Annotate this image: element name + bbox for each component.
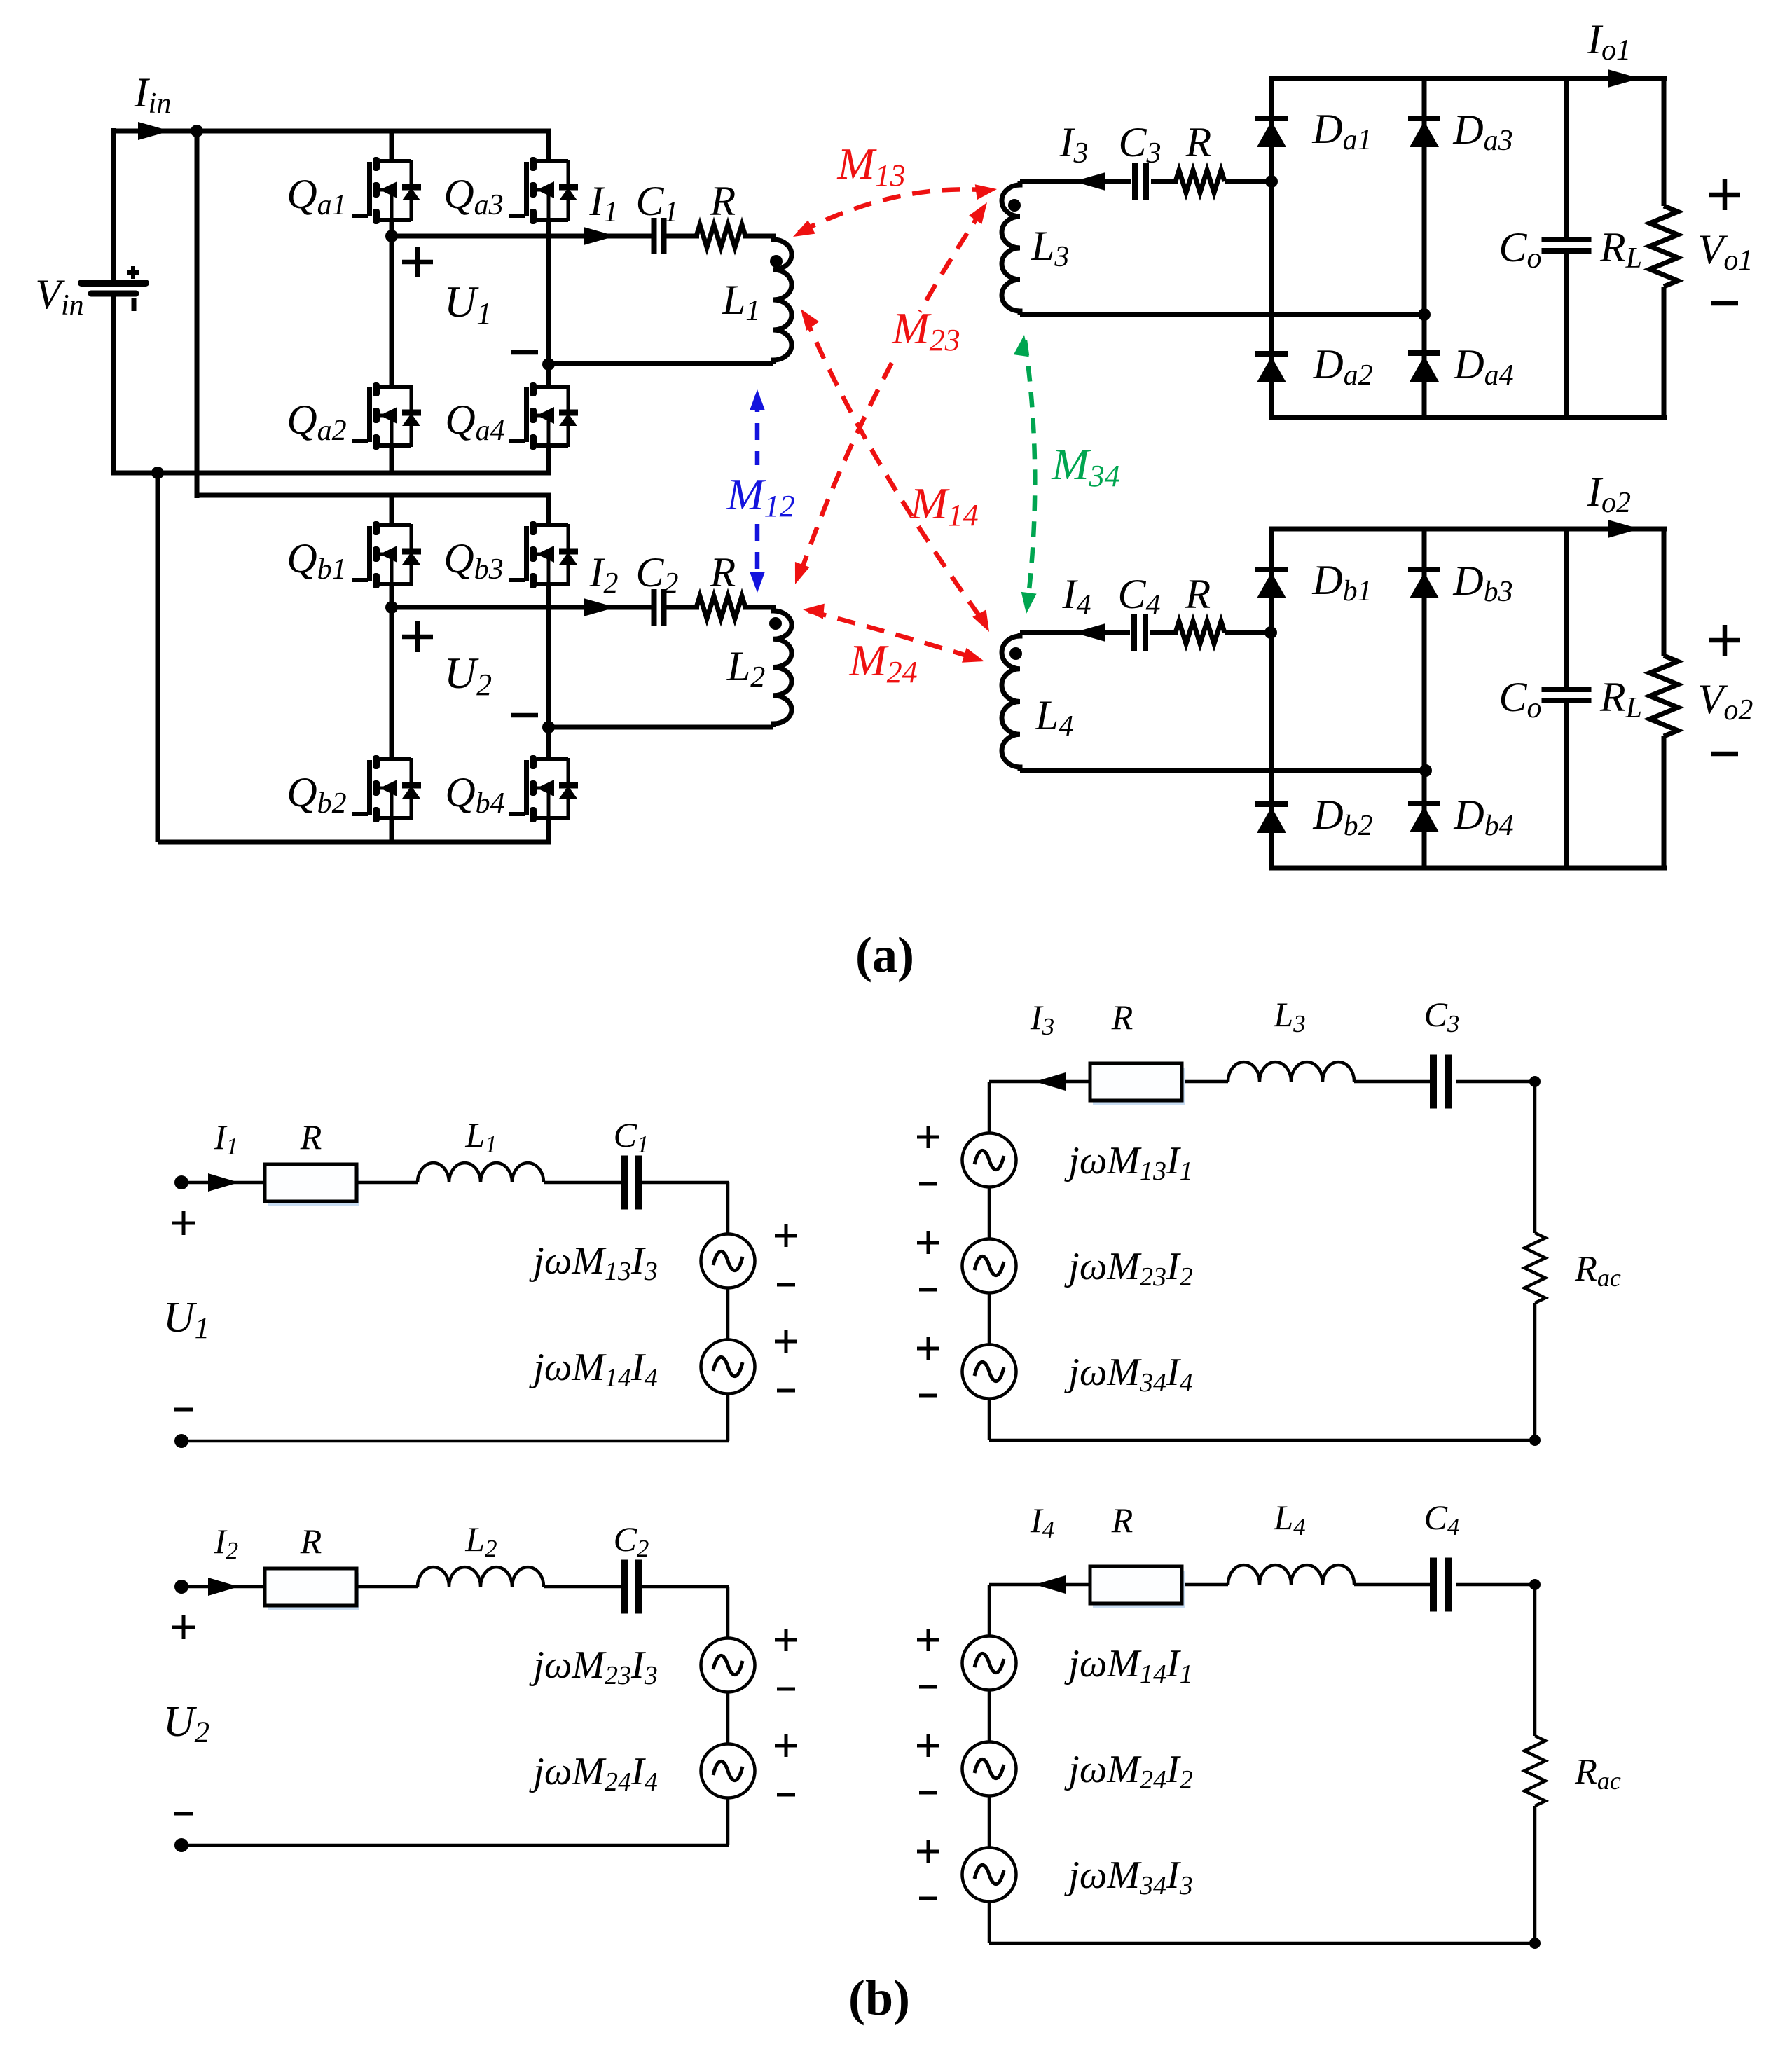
node U2 positive output xyxy=(385,601,398,614)
label U1 plus xyxy=(402,247,433,277)
label Vo2 plus xyxy=(1709,625,1740,656)
wire I2 branch xyxy=(392,605,656,610)
label I4 loop src2 minus xyxy=(919,1791,937,1795)
wire L3 return xyxy=(1020,312,1424,317)
label U2 loop source2 minus xyxy=(777,1793,795,1797)
arrow I3 current direction xyxy=(1073,172,1105,191)
wire bus to bridge B bottom rail xyxy=(156,473,160,842)
arrow Io2 current direction xyxy=(1608,520,1640,538)
diode Db4 xyxy=(1408,803,1440,832)
wire I3 loop right edge xyxy=(1533,1082,1537,1233)
wire I3 loop left edge xyxy=(988,1082,991,1133)
capacitor Co (output 1) xyxy=(1542,240,1592,251)
wire bus to bridge B top rail xyxy=(195,131,200,498)
wire I3 loop top xyxy=(989,1080,1090,1084)
inductor L1 xyxy=(770,236,792,364)
label U1 loop source2 plus xyxy=(775,1330,797,1353)
label U2 minus xyxy=(511,713,538,718)
node U1 loop return terminal xyxy=(174,1434,188,1448)
transistor Qb3 xyxy=(509,495,578,727)
svg-text:jωM13I1: jωM13I1 xyxy=(1064,1139,1192,1186)
source controlled source M34I3 xyxy=(963,1848,1016,1902)
diode Da4 xyxy=(1408,353,1440,382)
wire L4 return xyxy=(1020,768,1426,773)
node U2 negative output xyxy=(542,721,555,733)
wire rectifier B bottom rail xyxy=(1269,866,1667,871)
wire U1 loop L to C xyxy=(544,1181,621,1185)
wire Iin top rail xyxy=(197,129,551,134)
wire diode leg Db1-Db2 xyxy=(1269,529,1274,868)
resistor R (tank 1) xyxy=(696,225,745,247)
node rectifier B input right xyxy=(1419,764,1432,777)
diode Da1 xyxy=(1255,118,1288,147)
label U2 loop source1 plus xyxy=(775,1629,797,1651)
capacitor C1 (U1 loop) xyxy=(624,1156,639,1210)
battery Vin xyxy=(81,266,146,311)
wire I4 branch xyxy=(1020,630,1130,635)
capacitor C3 xyxy=(1135,163,1146,200)
capacitor C4 (I4 loop) xyxy=(1433,1558,1448,1612)
inductor L2 xyxy=(769,607,792,727)
inductor L1 (U1 loop) xyxy=(418,1163,544,1182)
node rectifier A input right xyxy=(1418,308,1431,321)
label I3 loop src2 plus xyxy=(917,1231,939,1254)
wire U1 loop between sources xyxy=(726,1288,730,1340)
label Vo1 minus xyxy=(1711,301,1738,306)
arrow I4 current direction xyxy=(1035,1575,1066,1594)
label I3 loop src2 minus xyxy=(919,1288,937,1292)
arrow I1 current direction xyxy=(208,1173,239,1192)
svg-text:R: R xyxy=(300,1117,322,1157)
source controlled source M14I4 xyxy=(701,1340,755,1394)
resistor RL (output 2) xyxy=(1650,656,1678,736)
wire I4 loop top xyxy=(989,1583,1090,1587)
diode Db2 xyxy=(1255,804,1288,833)
wire rectifier A bottom rail xyxy=(1269,415,1667,420)
svg-text:R: R xyxy=(710,178,736,224)
arrow I3 current direction xyxy=(1035,1072,1066,1091)
coupling M34 arrow xyxy=(1014,335,1037,614)
svg-text:jωM34I3: jωM34I3 xyxy=(1064,1854,1192,1900)
svg-text:jωM14I4: jωM14I4 xyxy=(529,1346,657,1393)
wire U2 loop R to L xyxy=(357,1585,418,1589)
coupling M23 arrow xyxy=(795,202,987,584)
svg-text:R: R xyxy=(1111,998,1133,1037)
capacitor C1 xyxy=(654,218,664,254)
wire Co branch A xyxy=(1564,78,1569,237)
svg-text:jωM23I2: jωM23I2 xyxy=(1064,1245,1192,1292)
label U2 loop source1 minus xyxy=(777,1688,795,1691)
source controlled source M14I1 xyxy=(963,1636,1016,1690)
wire RL branch B right edge xyxy=(1662,529,1667,656)
wire U2 loop between sources xyxy=(726,1692,730,1744)
label U2 loop minus xyxy=(174,1812,193,1816)
wire diode leg Da3-Da4 xyxy=(1422,78,1427,418)
svg-text:jωM13I3: jωM13I3 xyxy=(529,1239,657,1286)
wire U2 loop L to C xyxy=(544,1585,621,1589)
diode Da3 xyxy=(1408,118,1440,147)
transistor Qa3 xyxy=(509,131,578,364)
node I3 loop bottom right xyxy=(1529,1435,1541,1446)
svg-text:R: R xyxy=(1185,571,1211,617)
arrow I1 current direction xyxy=(584,227,616,245)
svg-text:R: R xyxy=(1111,1500,1133,1540)
label U1 loop plus xyxy=(172,1211,195,1235)
label I3 loop src1 plus xyxy=(917,1126,939,1148)
resistor Rac (I3 loop) xyxy=(1524,1233,1545,1303)
label I3 loop src3 minus xyxy=(919,1394,937,1398)
wire L1 return xyxy=(549,361,773,366)
node U2 loop input terminal xyxy=(174,1580,188,1594)
capacitor C3 (I3 loop) xyxy=(1433,1055,1448,1109)
wire rectifier A top rail xyxy=(1269,76,1667,81)
node bottom-rail junction xyxy=(151,467,164,479)
inductor L4 xyxy=(1002,633,1022,771)
label U1 loop source1 plus xyxy=(775,1224,797,1247)
label U2 loop source2 plus xyxy=(775,1734,797,1757)
wire U2 loop input xyxy=(181,1585,265,1589)
node rectifier A input left xyxy=(1265,175,1278,188)
wire diode leg Db3-Db4 xyxy=(1422,529,1427,868)
node I4 loop bottom right xyxy=(1529,1938,1541,1949)
arrow I4 current direction xyxy=(1073,623,1105,642)
capacitor C4 xyxy=(1134,614,1145,651)
transistor Qa2 xyxy=(352,236,421,473)
node U1 negative output xyxy=(542,358,555,371)
resistor R (I3 loop) xyxy=(1090,1063,1185,1105)
label Vo2 minus xyxy=(1711,752,1738,757)
arrow Io1 current direction xyxy=(1608,69,1640,88)
wire U2 loop sources to bottom xyxy=(726,1798,730,1846)
wire U1 loop sources to bottom xyxy=(726,1394,730,1442)
node U2 loop return terminal xyxy=(174,1838,188,1852)
transistor Qb4 xyxy=(509,727,578,842)
source controlled source M24I2 xyxy=(963,1742,1016,1796)
svg-text:R: R xyxy=(710,549,736,595)
wire I4 loop left edge xyxy=(988,1585,991,1636)
label I4 loop src3 plus xyxy=(917,1840,939,1863)
wire L2 return xyxy=(549,725,773,730)
label U1 loop source1 minus xyxy=(777,1283,795,1287)
svg-text:jωM14I1: jωM14I1 xyxy=(1064,1642,1192,1689)
wire Vin bottom lead xyxy=(111,294,116,473)
label U2 plus xyxy=(402,621,433,652)
inductor L2 (U2 loop) xyxy=(418,1567,544,1587)
label I4 loop src1 plus xyxy=(917,1629,939,1651)
capacitor C2 xyxy=(654,589,664,626)
svg-text:jωM24I4: jωM24I4 xyxy=(529,1750,657,1797)
label I3 loop src1 minus xyxy=(919,1182,937,1186)
wire I1 branch xyxy=(392,234,656,239)
coupling M14 arrow xyxy=(801,309,989,632)
resistor R (tank 2) xyxy=(696,596,745,619)
resistor R (tank 4) xyxy=(1176,621,1225,644)
wire Vin top lead xyxy=(111,128,116,281)
transistor Qa1 xyxy=(352,131,421,236)
wire rectifier B top rail xyxy=(1269,527,1667,532)
label I4 loop src2 plus xyxy=(917,1734,939,1757)
svg-text:(a): (a) xyxy=(855,927,914,983)
arrow I2 current direction xyxy=(584,598,616,616)
svg-text:R: R xyxy=(300,1522,322,1561)
wire diode leg Da1-Da2 xyxy=(1269,78,1274,418)
node I3 loop top right xyxy=(1529,1076,1541,1087)
label U2 loop plus xyxy=(172,1615,195,1639)
node I4 loop top right xyxy=(1529,1579,1541,1590)
arrow I2 current direction xyxy=(208,1578,239,1596)
wire Co branch B xyxy=(1564,529,1569,687)
wire U2 loop C to corner xyxy=(642,1585,729,1589)
wire U1 loop input xyxy=(181,1181,265,1185)
wire U1 loop C to corner xyxy=(642,1181,729,1185)
resistor R (tank 3) xyxy=(1176,170,1225,193)
transistor Qb2 xyxy=(352,607,421,842)
diode Db3 xyxy=(1408,570,1440,598)
transistor Qa4 xyxy=(509,364,578,473)
inductor L3 (I3 loop) xyxy=(1228,1062,1354,1082)
label I4 loop src3 minus xyxy=(919,1897,937,1900)
wire bridge A bottom rail xyxy=(111,471,551,476)
wire R to L1 xyxy=(745,234,773,239)
wire I4 loop right edge xyxy=(1533,1585,1537,1736)
label U1 minus xyxy=(511,350,538,355)
capacitor C2 (U2 loop) xyxy=(624,1560,639,1614)
label Vo1 plus xyxy=(1709,179,1740,210)
resistor R (U1 loop) xyxy=(265,1164,359,1206)
resistor R (I4 loop) xyxy=(1090,1566,1185,1608)
wire RL branch A right edge xyxy=(1662,78,1667,206)
wire I3 branch xyxy=(1020,179,1131,184)
source controlled source M13I1 xyxy=(963,1133,1016,1187)
wire I3 loop bottom xyxy=(989,1439,1535,1442)
diode Db1 xyxy=(1255,570,1288,598)
svg-text:jωM24I2: jωM24I2 xyxy=(1064,1748,1192,1795)
resistor Rac (I4 loop) xyxy=(1524,1736,1545,1806)
coupling M13 arrow xyxy=(793,184,997,237)
coupling M12 arrow xyxy=(750,389,765,593)
node U1 positive output xyxy=(385,230,398,242)
label U1 loop minus xyxy=(174,1408,193,1412)
source controlled source M24I4 xyxy=(701,1744,755,1798)
coupling M24 arrow xyxy=(803,604,984,663)
label U1 loop source2 minus xyxy=(777,1389,795,1393)
capacitor Co (output 2) xyxy=(1542,689,1592,701)
node U1 loop input terminal xyxy=(174,1175,188,1189)
resistor R (U2 loop) xyxy=(265,1568,359,1610)
source controlled source M23I3 xyxy=(701,1638,755,1692)
svg-text:(b): (b) xyxy=(848,1970,910,2026)
wire U1 loop R to L xyxy=(357,1181,418,1185)
label I3 loop src3 plus xyxy=(917,1337,939,1360)
arrow Iin current direction xyxy=(138,122,170,140)
svg-text:jωM34I4: jωM34I4 xyxy=(1064,1351,1192,1398)
resistor RL (output 1) xyxy=(1650,206,1678,287)
source controlled source M34I4 xyxy=(963,1345,1016,1399)
diode Da2 xyxy=(1255,354,1288,382)
source controlled source M13I3 xyxy=(701,1234,755,1288)
svg-text:jωM23I3: jωM23I3 xyxy=(529,1643,657,1690)
inductor L3 xyxy=(1002,181,1021,315)
source controlled source M23I2 xyxy=(963,1239,1016,1293)
label I4 loop src1 minus xyxy=(919,1685,937,1689)
wire I4 loop bottom xyxy=(989,1942,1535,1945)
node input top junction xyxy=(191,125,203,137)
svg-text:R: R xyxy=(1185,119,1212,165)
transistor Qb1 xyxy=(352,495,421,607)
node rectifier B input left xyxy=(1264,626,1277,639)
inductor L4 (I4 loop) xyxy=(1228,1565,1354,1585)
